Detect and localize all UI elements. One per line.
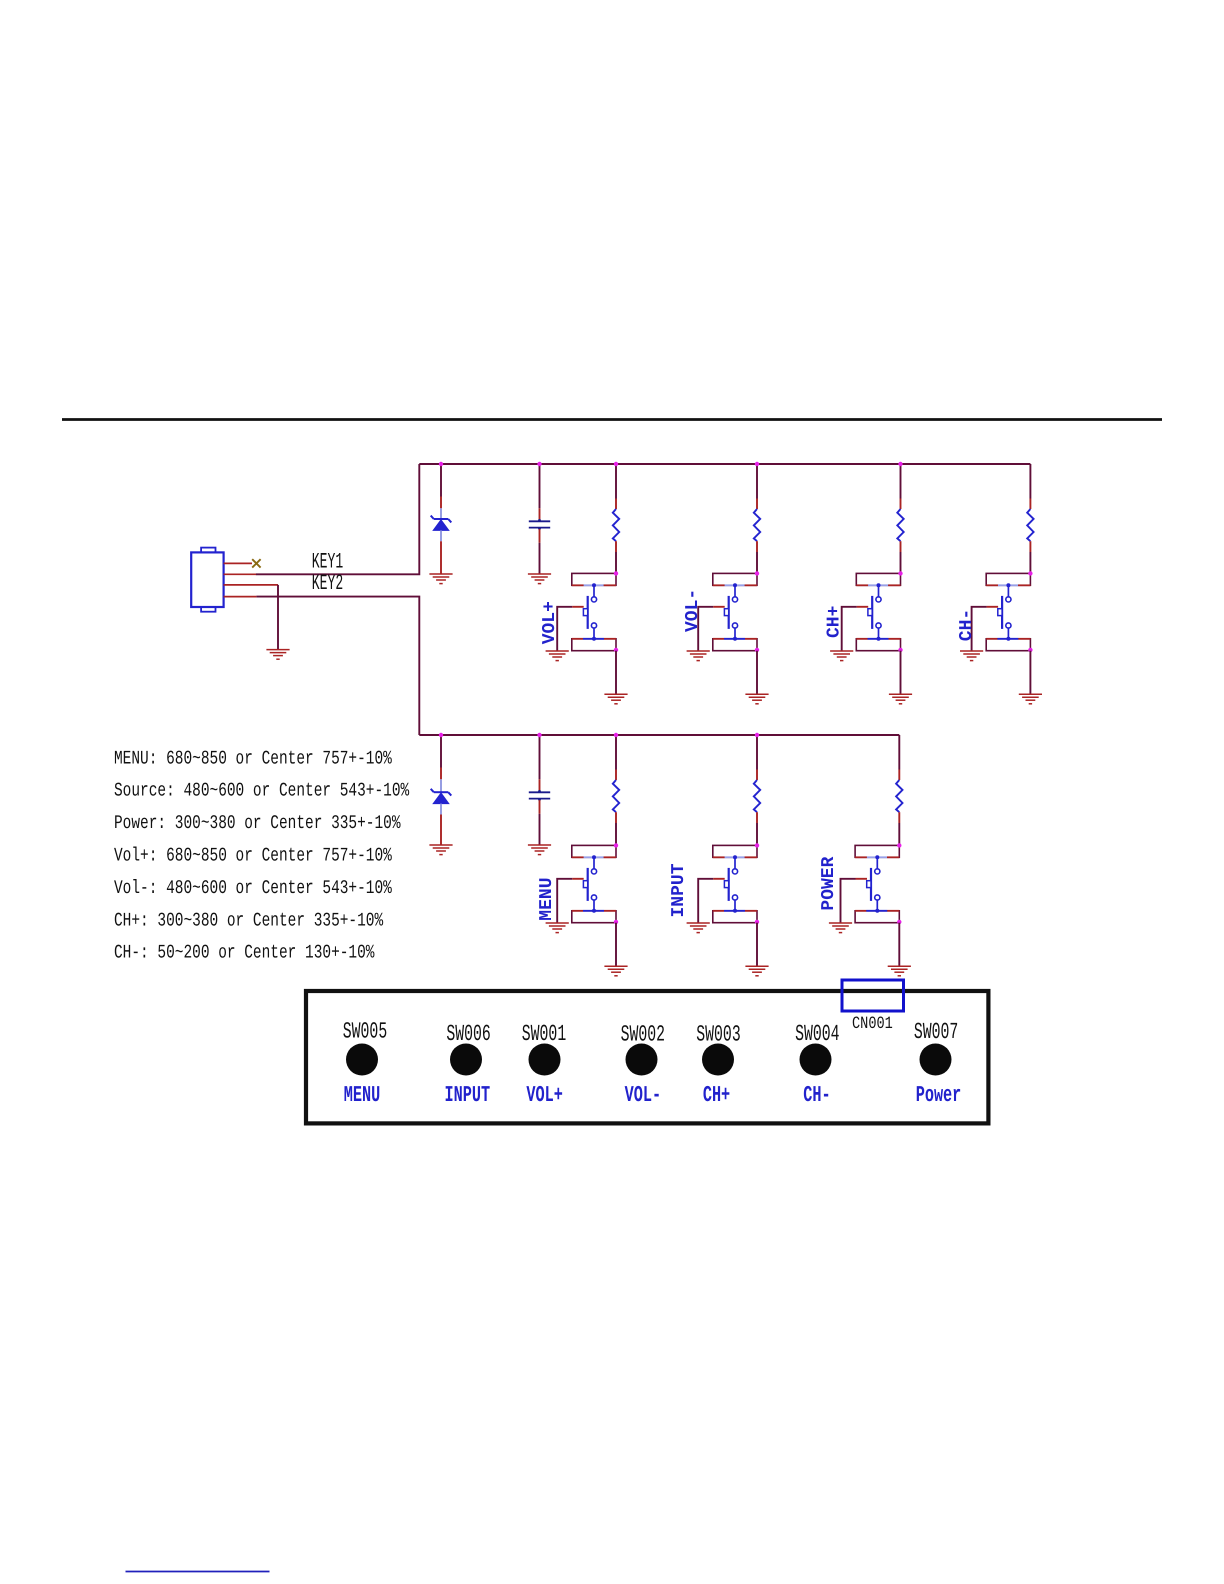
- ground (SW007 POWER actuator): [829, 923, 852, 933]
- wire SW001 VOL+ actuator to ground: [572, 606, 584, 608]
- junction SW005 MENU pad-resistor: [614, 843, 618, 847]
- svg-text:CH+: 300~380 or Center 335+-10: CH+: 300~380 or Center 335+-10%: [114, 911, 383, 932]
- svg-text:SW005: SW005: [343, 1020, 387, 1045]
- switch SW002 VOL- push-button symbol: [724, 585, 737, 639]
- switch SW005 MENU push-button symbol: [583, 857, 596, 911]
- resistor R (SW003 CH+): [897, 509, 903, 541]
- svg-text:Source: 480~600 or Center 543+: Source: 480~600 or Center 543+-10%: [114, 781, 410, 802]
- wire SW005 MENU to ground: [615, 923, 617, 966]
- wire SW003 CH+ resistor lead from bus: [900, 464, 902, 499]
- svg-text:CH+: CH+: [825, 606, 845, 638]
- wire pin 3 to ground: [277, 585, 279, 650]
- connector CN001 box: [842, 980, 904, 1011]
- junction upper bus x=539.5: [537, 462, 541, 466]
- wire net KEY2: [256, 597, 419, 735]
- switch SW002 VOL- top pad: [713, 573, 757, 587]
- svg-text:INPUT: INPUT: [669, 863, 689, 917]
- resistor R (SW004 CH-): [1027, 509, 1033, 541]
- svg-text:CH-: CH-: [957, 609, 977, 641]
- wire SW005 MENU resistor lead from bus: [615, 735, 617, 770]
- wire C1 lead from bus: [539, 464, 541, 508]
- svg-text:MENU: 680~850 or Center 757+-1: MENU: 680~850 or Center 757+-10%: [114, 749, 392, 770]
- ground (SW004 CH- pad): [1019, 694, 1042, 704]
- wire SW002 VOL- to ground: [756, 651, 758, 694]
- switch SW001 VOL+ top pad: [572, 573, 616, 587]
- horizontal separator rule: [62, 418, 1162, 421]
- capacitor C1: [529, 521, 550, 527]
- switch SW003 CH+ push-button symbol: [868, 585, 881, 639]
- svg-text:MENU: MENU: [344, 1082, 380, 1109]
- svg-text:Power: Power: [916, 1082, 962, 1109]
- wire SW005 MENU resistor to pad: [615, 812, 617, 823]
- svg-text:VOL+: VOL+: [526, 1082, 562, 1109]
- button SW007 key cap: [920, 1044, 952, 1076]
- wire SW003 CH+ to ground: [900, 651, 902, 694]
- switch SW006 INPUT top pad: [713, 845, 757, 859]
- junction SW001 VOL+ pad-resistor: [614, 571, 618, 575]
- keypad board outline box: [306, 991, 988, 1123]
- button SW003 key cap: [702, 1044, 734, 1076]
- wire SW002 VOL- resistor to pad: [756, 541, 758, 552]
- ground (SW001 VOL+ actuator): [546, 651, 569, 661]
- wire net KEY1: [256, 464, 419, 574]
- wire lower bus (KEY2): [419, 734, 899, 736]
- wire SW007 POWER resistor lead from bus: [898, 735, 900, 770]
- wire SW006 INPUT resistor lead from bus: [756, 735, 758, 770]
- wire SW007 POWER resistor to pad: [898, 812, 900, 823]
- switch SW004 CH- top pad: [986, 573, 1030, 587]
- wire SW001 VOL+ resistor to pad: [615, 541, 617, 552]
- ground (SW003 CH+ actuator): [830, 651, 853, 661]
- connector pin 2 stub (KEY1): [224, 573, 256, 575]
- wire SW004 CH- resistor lead from bus: [1029, 464, 1031, 499]
- svg-text:VOL-: VOL-: [683, 589, 703, 632]
- wire SW006 INPUT resistor to pad: [756, 812, 758, 823]
- junction upper bus x=441: [439, 462, 443, 466]
- junction SW006 INPUT pad-ground: [755, 920, 759, 924]
- switch SW007 POWER push-button symbol: [867, 857, 880, 911]
- wire SW003 CH+ actuator to ground: [857, 606, 869, 608]
- ground under C1: [528, 574, 551, 584]
- button SW006 key cap: [450, 1044, 482, 1076]
- switch SW007 POWER top pad: [855, 845, 899, 859]
- switch SW005 MENU bottom pad: [572, 909, 616, 923]
- svg-text:CH+: CH+: [703, 1082, 730, 1109]
- wire C2 lead from bus: [539, 735, 541, 779]
- switch SW004 CH- push-button symbol: [998, 585, 1011, 639]
- svg-text:Vol+: 680~850 or Center 757+-1: Vol+: 680~850 or Center 757+-10%: [114, 846, 392, 867]
- wire SW001 VOL+ to ground: [615, 651, 617, 694]
- wire D2 lead from bus: [440, 735, 442, 768]
- switch SW001 VOL+ bottom pad: [572, 637, 616, 651]
- button SW005 key cap: [346, 1044, 378, 1076]
- button SW004 key cap: [800, 1044, 832, 1076]
- resistor R (SW006 INPUT): [754, 780, 760, 812]
- svg-text:MENU: MENU: [537, 877, 557, 920]
- junction lower bus x=616: [614, 733, 618, 737]
- svg-text:VOL+: VOL+: [540, 601, 560, 644]
- connector pin 1 stub: [224, 562, 252, 564]
- junction SW002 VOL- pad-ground: [755, 648, 759, 652]
- button SW002 key cap: [626, 1044, 658, 1076]
- wire D1 anode to ground: [440, 530, 442, 541]
- wire SW005 MENU actuator to ground: [572, 878, 584, 880]
- zener diode D1: [431, 516, 452, 531]
- resistor R (SW007 POWER): [896, 780, 902, 812]
- junction lower bus x=539.5: [537, 733, 541, 737]
- junction SW004 CH- pad-ground: [1028, 648, 1032, 652]
- resistor R (SW002 VOL-): [754, 509, 760, 541]
- connector pin 4 stub (KEY2): [224, 596, 257, 598]
- ground (SW005 MENU actuator): [546, 923, 569, 933]
- switch SW004 CH- bottom pad: [986, 637, 1030, 651]
- junction upper bus x=616: [614, 462, 618, 466]
- junction SW007 POWER pad-ground: [897, 920, 901, 924]
- ground (SW002 VOL- actuator): [687, 651, 710, 661]
- wire SW004 CH- resistor to pad: [1029, 541, 1031, 552]
- zener diode D2: [431, 789, 452, 804]
- svg-text:Power: 300~380 or Center 335+-: Power: 300~380 or Center 335+-10%: [114, 813, 401, 834]
- switch SW006 INPUT push-button symbol: [724, 857, 737, 911]
- ground (SW002 VOL- pad): [745, 694, 768, 704]
- junction upper bus x=757: [755, 462, 759, 466]
- junction SW006 INPUT pad-resistor: [755, 843, 759, 847]
- resistor R (SW005 MENU): [613, 780, 619, 812]
- svg-text:VOL-: VOL-: [625, 1082, 661, 1109]
- button SW001 key cap: [529, 1044, 561, 1076]
- capacitor C2: [529, 792, 550, 798]
- wire SW004 CH- to ground: [1029, 651, 1031, 694]
- no-connect X on pin 1: [252, 559, 260, 567]
- ground (SW004 CH- actuator): [960, 651, 983, 661]
- switch SW003 CH+ top pad: [856, 573, 900, 587]
- ground (SW006 INPUT actuator): [687, 923, 710, 933]
- switch SW007 POWER bottom pad: [855, 909, 899, 923]
- wire SW002 VOL- actuator to ground: [713, 606, 725, 608]
- svg-text:Vol-: 480~600 or Center 543+-1: Vol-: 480~600 or Center 543+-10%: [114, 878, 392, 899]
- svg-text:KEY2: KEY2: [312, 571, 343, 596]
- wire SW003 CH+ resistor to pad: [900, 541, 902, 552]
- switch SW005 MENU top pad: [572, 845, 616, 859]
- wire D2 anode to ground: [440, 804, 442, 815]
- wire SW004 CH- actuator to ground: [987, 606, 999, 608]
- junction upper bus x=900.5: [898, 462, 902, 466]
- connector J1 body: [191, 548, 223, 612]
- ground (SW007 POWER pad): [888, 966, 911, 976]
- junction SW001 VOL+ pad-ground: [614, 648, 618, 652]
- wire SW007 POWER actuator to ground: [856, 878, 868, 880]
- junction SW003 CH+ pad-ground: [898, 648, 902, 652]
- junction SW007 POWER pad-resistor: [897, 843, 901, 847]
- switch SW001 VOL+ push-button symbol: [583, 585, 596, 639]
- ground (SW003 CH+ pad): [889, 694, 912, 704]
- resistor R (SW001 VOL+): [613, 509, 619, 541]
- svg-text:CH-: CH-: [803, 1082, 830, 1109]
- junction SW005 MENU pad-ground: [614, 920, 618, 924]
- wire C1 to ground: [539, 529, 541, 543]
- junction SW002 VOL- pad-resistor: [755, 571, 759, 575]
- ground (SW006 INPUT pad): [745, 966, 768, 976]
- switch SW003 CH+ bottom pad: [856, 637, 900, 651]
- ground (SW001 VOL+ pad): [604, 694, 627, 704]
- wire SW006 INPUT actuator to ground: [713, 878, 725, 880]
- svg-text:POWER: POWER: [819, 856, 839, 910]
- wire SW001 VOL+ resistor lead from bus: [615, 464, 617, 499]
- footer hyperlink rule: [126, 1571, 270, 1573]
- wire upper bus (KEY1): [419, 463, 1030, 465]
- junction lower bus x=441: [439, 733, 443, 737]
- junction SW003 CH+ pad-resistor: [898, 571, 902, 575]
- svg-text:CH-: 50~200 or Center 130+-10%: CH-: 50~200 or Center 130+-10%: [114, 943, 375, 964]
- junction lower bus x=757: [755, 733, 759, 737]
- ground under C2: [528, 845, 551, 855]
- wire SW007 POWER to ground: [898, 923, 900, 966]
- switch SW006 INPUT bottom pad: [713, 909, 757, 923]
- svg-text:INPUT: INPUT: [445, 1082, 491, 1109]
- wire SW006 INPUT to ground: [756, 923, 758, 966]
- ground (SW005 MENU pad): [604, 966, 627, 976]
- connector pin 3 stub: [224, 584, 278, 586]
- ground (connector pin 3): [266, 650, 289, 660]
- wire D1 lead from bus: [440, 464, 442, 497]
- wire SW002 VOL- resistor lead from bus: [756, 464, 758, 499]
- switch SW002 VOL- bottom pad: [713, 637, 757, 651]
- svg-text:CN001: CN001: [852, 1015, 893, 1034]
- svg-text:SW007: SW007: [914, 1021, 958, 1046]
- junction SW004 CH- pad-resistor: [1028, 571, 1032, 575]
- wire C2 to ground: [539, 800, 541, 814]
- ground under D2: [429, 845, 452, 855]
- ground under D1: [429, 574, 452, 584]
